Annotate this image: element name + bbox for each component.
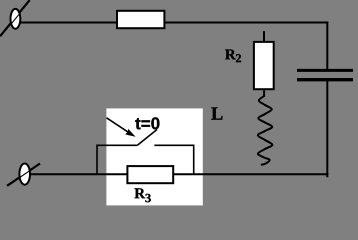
label R2	[225, 49, 236, 59]
wire right vertical upper	[326, 22, 328, 70]
label t=0	[135, 117, 159, 129]
capacitor C1 bottom plate	[297, 78, 353, 81]
node panel (white subcircuit background)	[106, 108, 202, 205]
resistor R2	[254, 42, 274, 89]
wire R2 top stub	[263, 31, 265, 44]
terminal J2 bottom	[7, 164, 40, 186]
terminal J1 top	[0, 0, 30, 36]
wire bottom	[29, 173, 328, 175]
wire top	[19, 22, 328, 24]
wire right vertical lower	[326, 81, 328, 178]
capacitor C1 top plate	[297, 69, 353, 72]
arrow to switch	[107, 118, 136, 137]
switch S1 blade	[137, 130, 157, 146]
resistor R1	[117, 11, 164, 28]
wire switch branch left	[97, 145, 137, 174]
resistor R3	[127, 166, 173, 183]
inductor L	[258, 90, 273, 165]
label R3	[134, 188, 145, 198]
wire switch branch right	[154, 145, 193, 174]
label L	[211, 107, 222, 119]
